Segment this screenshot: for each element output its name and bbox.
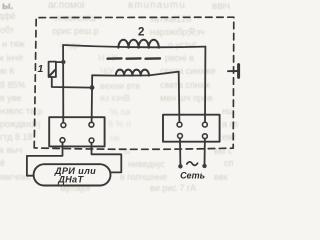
wire: lamp left lead bbox=[27, 143, 63, 176]
svg-text:8 85%: 8 85% bbox=[0, 80, 26, 90]
igniter internal diagonal bbox=[49, 70, 55, 76]
wire: mains lead left bbox=[179, 138, 181, 164]
wire: secondary winding conductor bbox=[92, 72, 179, 76]
wire: lamp right lead bbox=[92, 143, 122, 173]
wire: top conductor bbox=[63, 45, 205, 47]
wire: mains lead right bbox=[204, 139, 206, 164]
svg-text:вmunaumu: вmunaumu bbox=[128, 0, 186, 11]
svg-text:гтд 8 18: гтд 8 18 bbox=[0, 132, 32, 142]
svg-text:обт: обт bbox=[0, 25, 14, 35]
choke secondary winding bbox=[116, 70, 149, 76]
mains lead end dot left bbox=[178, 164, 182, 168]
wire: secondary right drop to terminal block bbox=[178, 72, 181, 123]
junction dot bbox=[90, 85, 95, 90]
svg-text:вехни втв: вехни втв bbox=[100, 81, 140, 91]
svg-text:ДНаТ: ДНаТ bbox=[57, 175, 84, 185]
svg-text:н тяж: н тяж bbox=[2, 39, 25, 49]
igniter element 1 (resistor body) bbox=[49, 62, 56, 77]
svg-text:ввіч: ввіч bbox=[212, 1, 230, 12]
mains lead end dot right bbox=[202, 164, 206, 168]
svg-text:нв: нв bbox=[110, 133, 120, 143]
svg-text:нарзжібр央зч: нарзжібр央зч bbox=[150, 26, 205, 37]
svg-text:дфё: дфё bbox=[0, 11, 16, 21]
ballast choke L1: primary winding bbox=[118, 40, 158, 48]
svg-text:в голчшнне: в голчшнне bbox=[120, 172, 167, 182]
svg-text:ниввднյс: ниввднյс bbox=[128, 159, 165, 169]
svg-text:сп: сп bbox=[224, 158, 234, 168]
svg-text:ви рис 7 гА: ви рис 7 гА bbox=[150, 183, 196, 193]
wire: left vertical (lamp line) bbox=[62, 45, 64, 123]
paper background bbox=[0, 0, 253, 193]
choke magnetic core bbox=[108, 57, 161, 60]
right terminal block body bbox=[163, 115, 220, 142]
svg-text:рвоні в: рвоні в bbox=[165, 53, 194, 63]
svg-text:ы: ы bbox=[124, 146, 130, 156]
left terminal block body bbox=[49, 117, 104, 146]
svg-text:к выч: к выч bbox=[0, 145, 23, 155]
svg-text:% па: % па bbox=[110, 107, 130, 117]
enclosure dashed box bbox=[34, 17, 234, 149]
wire: igniter bottom stub to junction bbox=[52, 77, 92, 88]
wire: secondary left drop to terminal block bbox=[91, 75, 94, 122]
svg-text:ввк: ввк bbox=[214, 172, 228, 182]
svg-text:8 % п: 8 % п bbox=[108, 119, 131, 129]
svg-text:аг.помоі: аг.помоі bbox=[48, 0, 84, 11]
svg-text:яз кзчВ: яз кзчВ bbox=[100, 93, 130, 103]
svg-text:а гл: а гл bbox=[222, 119, 238, 129]
svg-text:к інч#: к інч# bbox=[0, 53, 23, 63]
svg-text:2: 2 bbox=[138, 27, 144, 39]
ground clamp terminal on enclosure right edge bbox=[228, 65, 239, 78]
svg-text:хвтжві128: хвтжві128 bbox=[150, 14, 191, 24]
AC symbol ~ bbox=[187, 162, 198, 166]
svg-text:ві К: ві К bbox=[0, 66, 15, 76]
svg-text:орис реш.р: орис реш.р bbox=[52, 26, 99, 36]
svg-text:сввта спнхж: сввта спнхж bbox=[160, 80, 210, 90]
svg-text:о устнІ: о устнІ bbox=[168, 40, 196, 50]
svg-text:нш: нш bbox=[222, 106, 234, 116]
svg-text:в уве: в уве bbox=[0, 93, 21, 103]
svg-text:1: 1 bbox=[38, 63, 44, 75]
right block terminal circles bbox=[177, 122, 207, 138]
svg-text:Сеть: Сеть bbox=[180, 171, 205, 181]
left block terminal circles bbox=[60, 122, 94, 143]
svg-text:ё: ё bbox=[0, 158, 5, 168]
bleed-through text texture bbox=[0, 0, 238, 193]
junction dot at igniter top bbox=[61, 60, 65, 64]
svg-text:свнта синхже: свнта синхже bbox=[160, 66, 216, 76]
wire: right vertical to mains block bbox=[204, 47, 206, 123]
svg-text:нзвлс та р: нзвлс та р bbox=[0, 106, 42, 116]
lamp DRI/DNaT bulb outline bbox=[34, 164, 111, 185]
wire: igniter top stub bbox=[56, 61, 63, 63]
